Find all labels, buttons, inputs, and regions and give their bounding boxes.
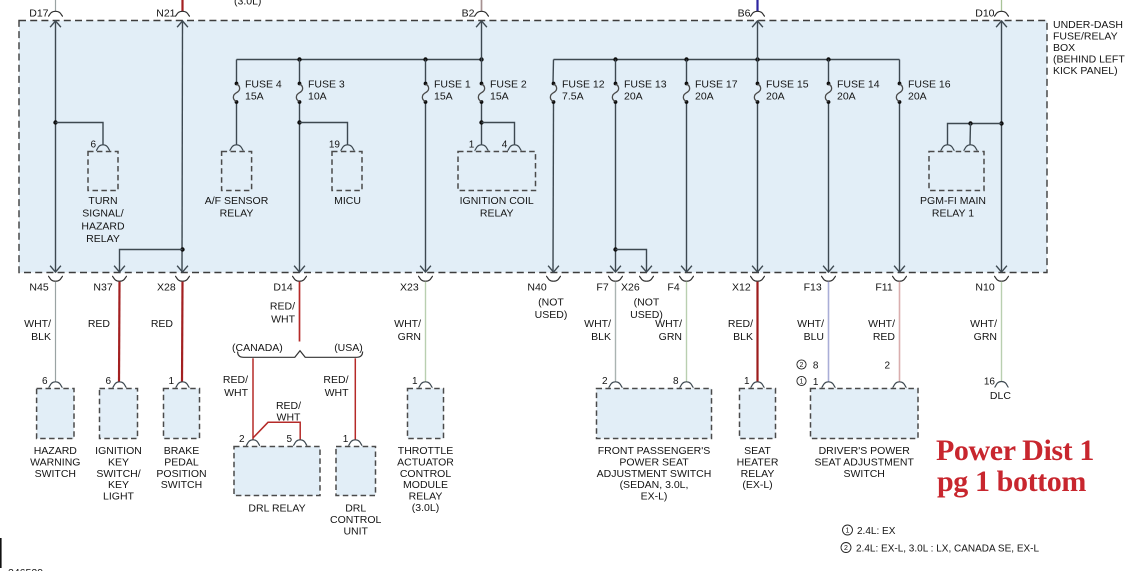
under-dash fuse/relay box caption: [1053, 19, 1125, 77]
connector N21 label: [156, 8, 175, 20]
connector B6: [750, 11, 765, 16]
svg-text:IGNITION: IGNITION: [95, 445, 142, 457]
arrow out of box at F13: [823, 266, 834, 272]
svg-text:20A: 20A: [695, 91, 714, 103]
connector F11 label: [875, 282, 892, 294]
ignition key switch / key light: [100, 389, 138, 439]
svg-text:KEY: KEY: [108, 479, 129, 491]
hazard warning switch S1: [37, 389, 74, 439]
svg-text:FRONT PASSENGER'S: FRONT PASSENGER'S: [598, 445, 710, 457]
svg-text:FUSE 13: FUSE 13: [624, 79, 667, 91]
wire FUSE 12 column to N40: [552, 60, 555, 84]
wire WHT/GRN from X23: [425, 282, 427, 382]
wire FUSE 3 column to D14: [299, 60, 301, 84]
svg-text:B2: B2: [462, 8, 475, 20]
svg-text:BLU: BLU: [804, 331, 824, 343]
svg-text:X26: X26: [621, 282, 640, 294]
svg-text:SWITCH: SWITCH: [161, 479, 202, 491]
junction right bus: [684, 57, 688, 61]
svg-text:D10: D10: [975, 8, 994, 20]
junction on N21 wire: [180, 247, 184, 251]
svg-text:SWITCH: SWITCH: [35, 468, 76, 480]
svg-text:TURN: TURN: [88, 195, 117, 207]
arrow out of box at F11: [894, 266, 905, 272]
svg-text:2: 2: [239, 434, 245, 445]
pin 2 of front passenger's power seat adjustment switch: [609, 382, 623, 388]
wire WHT/BLU from F13: [828, 282, 830, 382]
junction left bus at FUSE 3: [297, 57, 301, 61]
connector F13 label: [804, 282, 822, 294]
connector B2: [474, 11, 489, 16]
arrow into box at N21: [177, 21, 188, 27]
connector F4 label: [667, 282, 679, 294]
footnote circled 1: 2.4L EX: [843, 525, 853, 535]
svg-text:20A: 20A: [837, 91, 856, 103]
arrow out of box at F7: [610, 266, 621, 272]
fuse FUSE 4 15A: [233, 79, 282, 104]
svg-text:N37: N37: [93, 282, 112, 294]
svg-text:X12: X12: [732, 282, 751, 294]
svg-text:20A: 20A: [766, 91, 785, 103]
svg-text:1: 1: [846, 528, 850, 535]
wire WHT/RED from F11: [899, 282, 901, 382]
wire RED from X28: [181, 282, 184, 382]
svg-text:FUSE 1: FUSE 1: [434, 79, 471, 91]
svg-text:(EX-L): (EX-L): [742, 479, 772, 491]
connector D17: [48, 11, 63, 16]
svg-text:2: 2: [602, 376, 608, 387]
svg-text:RELAY: RELAY: [86, 233, 120, 245]
svg-text:246529: 246529: [8, 567, 43, 571]
svg-text:1: 1: [168, 376, 174, 387]
wire RED from N37: [118, 282, 121, 382]
wire branch to X26: [616, 250, 647, 273]
junction on PGM-FI branch: [968, 121, 972, 125]
svg-text:PGM-FI MAIN: PGM-FI MAIN: [920, 195, 986, 207]
fuse FUSE 14 20A: [825, 79, 879, 104]
node split (CANADA)/(USA) bracket: [238, 351, 363, 358]
svg-text:RELAY: RELAY: [220, 208, 254, 220]
svg-text:F13: F13: [804, 282, 822, 294]
ignition coil relay: [458, 152, 536, 191]
svg-text:15A: 15A: [434, 91, 453, 103]
svg-text:DRL RELAY: DRL RELAY: [248, 503, 305, 515]
connector F7: [608, 276, 623, 281]
footnote circled 2: 2.4L EX-L etc: [841, 543, 851, 553]
DRL control unit: [336, 447, 376, 496]
svg-text:(BEHIND LEFT: (BEHIND LEFT: [1053, 53, 1125, 65]
fuse FUSE 13 20A: [612, 79, 666, 104]
svg-text:IGNITION COIL: IGNITION COIL: [460, 195, 534, 207]
connector D10 label: [975, 8, 994, 20]
svg-text:WHT: WHT: [224, 387, 248, 399]
wire WHT/BLK from N45: [55, 282, 57, 382]
svg-text:1: 1: [800, 379, 804, 386]
pin 6 of hazard warning switch: [49, 382, 63, 388]
wire feed into connector B6: [756, 0, 758, 11]
brake pedal position switch: [164, 389, 200, 439]
svg-text:WHT/: WHT/: [394, 318, 421, 330]
junction right bus: [826, 57, 830, 61]
svg-text:F4: F4: [667, 282, 679, 294]
svg-text:X28: X28: [157, 282, 176, 294]
svg-text:FUSE 2: FUSE 2: [490, 79, 527, 91]
title Power Dist 1 pg 1 bottom: [936, 434, 1094, 498]
connector F13: [821, 276, 836, 281]
wire FUSE 16 column to F11: [899, 60, 901, 84]
svg-text:6: 6: [105, 376, 111, 387]
svg-text:GRN: GRN: [974, 331, 997, 343]
svg-text:(CANADA): (CANADA): [232, 342, 283, 354]
note (NOT USED) at X26: [630, 297, 663, 322]
svg-text:15A: 15A: [245, 91, 264, 103]
scan frame mark left edge: [0, 538, 2, 568]
wire FUSE 1 column to X23: [425, 60, 427, 84]
svg-text:20A: 20A: [624, 91, 643, 103]
front passenger's power seat adjustment switch: [597, 389, 712, 439]
svg-text:6: 6: [42, 376, 48, 387]
svg-text:N10: N10: [975, 282, 994, 294]
pin 1 of DRL control unit: [348, 440, 362, 446]
junction on FUSE 13 wire: [613, 247, 617, 251]
DLC label: [990, 390, 1011, 402]
PGM-FI main relay 1: [929, 152, 984, 191]
pin variant circled 1 with pin 1: [797, 376, 806, 385]
svg-text:RELAY: RELAY: [480, 208, 514, 220]
svg-text:RED/: RED/: [223, 374, 248, 386]
fuse FUSE 3 10A: [296, 79, 345, 104]
MICU unit: [332, 152, 362, 191]
svg-text:HAZARD: HAZARD: [81, 220, 125, 232]
svg-text:KICK PANEL): KICK PANEL): [1053, 65, 1118, 77]
svg-text:WHT/: WHT/: [655, 318, 682, 330]
svg-text:N40: N40: [527, 282, 546, 294]
svg-text:(NOT: (NOT: [634, 297, 660, 309]
wire RED/BLK from X12: [756, 282, 758, 382]
svg-text:POSITION: POSITION: [156, 468, 206, 480]
svg-text:UNDER-DASH: UNDER-DASH: [1053, 19, 1123, 31]
svg-text:RED: RED: [873, 331, 896, 343]
wire drop to PGM-FI relay second pin: [969, 123, 972, 145]
svg-text:RED/: RED/: [323, 374, 348, 386]
A/F sensor relay: [222, 152, 252, 191]
svg-text:(USA): (USA): [334, 342, 363, 354]
pin 2 of driver's power seat adjustment switch: [893, 382, 907, 388]
svg-text:UNIT: UNIT: [343, 525, 368, 537]
svg-text:SEAT: SEAT: [744, 445, 771, 457]
fuse FUSE 17 20A: [683, 79, 737, 104]
svg-text:CONTROL: CONTROL: [400, 468, 451, 480]
junction right bus: [613, 57, 617, 61]
svg-text:PEDAL: PEDAL: [164, 456, 199, 468]
pin 1 of brake pedal position switch: [176, 382, 190, 388]
svg-text:SWITCH: SWITCH: [843, 468, 884, 480]
junction on FUSE 3 wire for MICU branch: [297, 120, 301, 124]
wire branch to turn signal/hazard relay: [56, 123, 104, 145]
pin 5 of DRL relay: [293, 440, 307, 446]
connector N21: [175, 11, 190, 16]
svg-text:GRN: GRN: [398, 331, 421, 343]
turn signal/hazard relay U-TS: [88, 152, 118, 191]
svg-text:F7: F7: [596, 282, 608, 294]
svg-text:SEAT ADJUSTMENT: SEAT ADJUSTMENT: [815, 456, 915, 468]
arrow into box at D10: [996, 21, 1007, 27]
arrow out of box at F4: [681, 266, 692, 272]
driver's power seat adjustment switch: [811, 389, 919, 439]
svg-text:6: 6: [90, 140, 96, 151]
junction left bus at B2: [479, 57, 483, 61]
connector F4: [679, 276, 694, 281]
svg-text:2.4L: EX-L, 3.0L : LX, CANADA: 2.4L: EX-L, 3.0L : LX, CANADA SE, EX-L: [856, 544, 1039, 555]
junction on FUSE 2 wire: [479, 120, 483, 124]
svg-text:D17: D17: [29, 8, 48, 20]
svg-text:B6: B6: [738, 8, 751, 20]
pin 8/1 of driver's power seat adjustment switch: [822, 382, 836, 388]
arrow out of box at X12: [752, 266, 763, 272]
fuse FUSE 2 15A: [478, 79, 527, 104]
wire FUSE 17 column to F4: [686, 60, 688, 84]
pin variant circled 2 with pin 8: [797, 360, 806, 369]
relay pin of A/F sensor relay: [230, 145, 244, 151]
fuse FUSE 16 20A: [896, 79, 950, 104]
svg-text:FUSE 17: FUSE 17: [695, 79, 738, 91]
connector X26 label: [621, 282, 640, 294]
svg-text:N21: N21: [156, 8, 175, 20]
svg-text:USED): USED): [535, 309, 568, 321]
svg-text:16: 16: [984, 377, 996, 388]
arrow out of box at N45: [50, 266, 61, 272]
arrow out of box at X28: [177, 266, 188, 272]
left fuse bus from FUSE 4 to B2: [237, 59, 482, 61]
svg-text:1: 1: [469, 140, 475, 151]
svg-text:BRAKE: BRAKE: [164, 445, 200, 457]
connector D17 label: [29, 8, 48, 20]
svg-text:THROTTLE: THROTTLE: [398, 445, 453, 457]
connector N10 label: [975, 282, 994, 294]
wire FUSE 13 column to F7: [615, 60, 617, 84]
svg-text:(3.0L): (3.0L): [234, 0, 261, 8]
svg-text:MODULE: MODULE: [403, 479, 448, 491]
fuse FUSE 15 20A: [754, 79, 808, 104]
wire WHT/GRN from F4: [686, 282, 688, 382]
svg-text:5: 5: [286, 434, 292, 445]
svg-text:20A: 20A: [908, 91, 927, 103]
arrow out of box at N40: [548, 266, 559, 272]
pin 1 of throttle actuator control module relay: [419, 382, 433, 388]
svg-text:2.4L: EX: 2.4L: EX: [857, 526, 896, 537]
svg-text:DLC: DLC: [990, 390, 1011, 402]
svg-text:10A: 10A: [308, 91, 327, 103]
junction right bus: [755, 57, 759, 61]
connector X23: [418, 276, 433, 281]
arrow out of box at D14: [294, 266, 305, 272]
wire N21 to X28 vertical: [181, 21, 184, 273]
svg-text:FUSE 15: FUSE 15: [766, 79, 809, 91]
connector N37: [112, 276, 127, 281]
svg-text:RED: RED: [88, 318, 111, 330]
svg-text:WHT/: WHT/: [584, 318, 611, 330]
svg-text:RED/: RED/: [728, 318, 753, 330]
svg-text:1: 1: [744, 376, 750, 387]
svg-text:WARNING: WARNING: [30, 456, 80, 468]
connector N40 label: [527, 282, 546, 294]
throttle actuator control module relay: [408, 389, 444, 439]
svg-text:FUSE 14: FUSE 14: [837, 79, 880, 91]
arrow out of box at X23: [420, 266, 431, 272]
wire feed into connector D10: [1001, 0, 1003, 11]
svg-text:WHT/: WHT/: [24, 318, 51, 330]
svg-text:ACTUATOR: ACTUATOR: [397, 456, 454, 468]
wire RED/WHT usa branch: [354, 358, 356, 440]
svg-text:FUSE 4: FUSE 4: [245, 79, 282, 91]
cropped label (3.0L) from page above: [234, 0, 261, 8]
right fuse bus from FUSE 12 to FUSE 16: [554, 59, 900, 61]
svg-text:N45: N45: [29, 282, 48, 294]
fuse FUSE 1 15A: [422, 79, 471, 104]
svg-text:RELAY 1: RELAY 1: [932, 208, 974, 220]
svg-text:RELAY: RELAY: [409, 491, 443, 503]
fuse FUSE 12 7.5A: [550, 79, 604, 104]
arrow into box at B6: [752, 21, 763, 27]
wire feed into connector B2: [481, 0, 483, 11]
arrow out of box at N37: [114, 266, 125, 272]
svg-text:(SEDAN, 3.0L,: (SEDAN, 3.0L,: [620, 479, 689, 491]
svg-text:EX-L): EX-L): [641, 491, 668, 503]
label RED/WHT on jumper: [276, 400, 301, 424]
svg-text:pg 1 bottom: pg 1 bottom: [937, 465, 1086, 498]
svg-text:2: 2: [844, 545, 848, 552]
svg-text:(3.0L): (3.0L): [412, 502, 439, 514]
arrow out of box at X26: [641, 266, 652, 272]
relay pin 6 of turn signal/hazard relay: [96, 145, 110, 151]
svg-text:D14: D14: [273, 282, 292, 294]
connector B6 label: [738, 8, 751, 20]
svg-text:8: 8: [673, 376, 679, 387]
pin 4 of ignition coil relay: [508, 145, 522, 151]
connector N45: [48, 276, 63, 281]
svg-text:1: 1: [412, 376, 418, 387]
svg-text:FUSE 16: FUSE 16: [908, 79, 951, 91]
svg-text:WHT/: WHT/: [970, 318, 997, 330]
wire FUSE 4 column: [236, 60, 238, 84]
connector F11: [892, 276, 907, 281]
wire feed into connector N21: [181, 0, 183, 11]
svg-text:19: 19: [329, 140, 341, 151]
svg-text:7.5A: 7.5A: [562, 91, 584, 103]
pins of PGM-FI main relay 1: [941, 145, 955, 151]
connector pin 16 of DLC: [995, 382, 1009, 388]
svg-text:X23: X23: [400, 282, 419, 294]
svg-text:HAZARD: HAZARD: [34, 445, 78, 457]
connector N40: [546, 276, 561, 281]
svg-text:1: 1: [813, 377, 819, 388]
svg-text:(NOT: (NOT: [538, 297, 564, 309]
label (USA): [334, 342, 363, 354]
svg-text:RED/: RED/: [276, 400, 301, 412]
wire D17 to N45 vertical: [55, 21, 57, 273]
svg-text:BLK: BLK: [31, 331, 51, 343]
connector X28: [175, 276, 190, 281]
connector N10: [994, 276, 1009, 281]
junction on D17 wire: [53, 120, 57, 124]
junction on D10 wire: [999, 121, 1003, 125]
connector X23 label: [400, 282, 419, 294]
arrow into box at D17: [50, 21, 61, 27]
svg-text:SWITCH/: SWITCH/: [96, 468, 140, 480]
svg-text:RED: RED: [151, 318, 174, 330]
connector D14: [292, 276, 307, 281]
DRL relay: [234, 447, 320, 496]
svg-text:Power Dist 1: Power Dist 1: [936, 434, 1094, 467]
wire FUSE 14 column to F13: [828, 60, 830, 84]
wire RED/WHT from D14: [299, 282, 301, 342]
connector D10: [994, 11, 1009, 16]
wire branch to ignition coil relay pin 4: [482, 123, 515, 145]
wire B2 column through FUSE 2: [481, 21, 483, 84]
svg-text:GRN: GRN: [659, 331, 682, 343]
connector X12 label: [732, 282, 751, 294]
svg-text:FUSE 12: FUSE 12: [562, 79, 605, 91]
svg-text:ADJUSTMENT SWITCH: ADJUSTMENT SWITCH: [597, 468, 712, 480]
svg-text:DRIVER'S POWER: DRIVER'S POWER: [819, 445, 911, 457]
label (CANADA): [232, 342, 283, 354]
wire WHT/GRN from N10 to DLC: [1001, 282, 1003, 382]
connector N45 label: [29, 282, 48, 294]
svg-text:2: 2: [800, 362, 804, 369]
connector D14 label: [273, 282, 292, 294]
wire RED/WHT jumper pin2 to pin5 of DRL relay: [253, 422, 300, 440]
svg-text:WHT/: WHT/: [868, 318, 895, 330]
svg-text:WHT: WHT: [277, 412, 301, 424]
svg-text:F11: F11: [875, 282, 892, 294]
wire branch to N37: [120, 250, 183, 273]
arrow into box at B2: [476, 21, 487, 27]
svg-text:8: 8: [813, 361, 819, 372]
arrow out of box at N10: [996, 266, 1007, 272]
note (NOT USED) at N40: [535, 297, 568, 322]
pin 6 of ignition key switch: [113, 382, 127, 388]
svg-text:BLK: BLK: [733, 331, 753, 343]
seat heater relay: [740, 389, 776, 439]
wire B6 column through FUSE 15 to X12: [757, 21, 759, 84]
svg-text:2: 2: [884, 361, 890, 372]
connector F7 label: [596, 282, 608, 294]
svg-text:WHT: WHT: [325, 387, 349, 399]
pin 8 of front passenger's power seat adjustment switch: [680, 382, 694, 388]
svg-text:WHT/: WHT/: [797, 318, 824, 330]
connector X12: [750, 276, 765, 281]
svg-text:CONTROL: CONTROL: [330, 514, 381, 526]
svg-text:BOX: BOX: [1053, 42, 1075, 54]
junction left bus at FUSE 1: [423, 57, 427, 61]
svg-text:WHT: WHT: [271, 314, 295, 326]
connector B2 label: [462, 8, 475, 20]
wire branch to MICU: [300, 123, 348, 145]
pin 1 of seat heater relay: [751, 382, 765, 388]
connector N37 label: [93, 282, 112, 294]
pin 2 of DRL relay: [246, 440, 260, 446]
pin 19 of MICU: [341, 145, 355, 151]
svg-text:HEATER: HEATER: [737, 456, 779, 468]
svg-text:KEY: KEY: [108, 456, 129, 468]
connector X28 label: [157, 282, 176, 294]
page number 246529 cropped: [8, 567, 43, 571]
wire branch to PGM-FI main relay 1: [948, 124, 1002, 145]
wire RED/WHT canada branch: [252, 358, 254, 440]
svg-text:DRL: DRL: [345, 503, 366, 515]
svg-text:POWER SEAT: POWER SEAT: [619, 456, 689, 468]
svg-text:LIGHT: LIGHT: [103, 491, 135, 503]
